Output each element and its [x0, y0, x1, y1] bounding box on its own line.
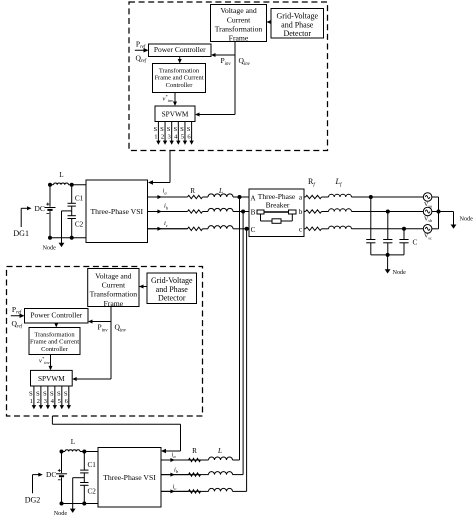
svg-text:DC: DC	[35, 204, 45, 213]
svg-text:Voltage and: Voltage and	[95, 271, 132, 280]
svg-text:S: S	[167, 126, 171, 133]
svg-text:DG1: DG1	[13, 229, 29, 238]
svg-text:S: S	[173, 126, 177, 133]
svg-text:Transformation: Transformation	[215, 25, 263, 34]
svg-text:and Phase: and Phase	[281, 20, 314, 29]
svg-text:Node: Node	[43, 244, 57, 251]
svg-text:Power Controller: Power Controller	[154, 45, 206, 54]
svg-text:S: S	[50, 390, 54, 397]
svg-text:Transformation: Transformation	[159, 67, 200, 74]
svg-text:DG2: DG2	[25, 495, 41, 504]
svg-text:S: S	[180, 126, 184, 133]
svg-text:A: A	[250, 194, 256, 202]
svg-text:SPVWM: SPVWM	[38, 374, 65, 383]
svg-text:and Phase: and Phase	[156, 285, 189, 294]
svg-text:Controller: Controller	[41, 346, 69, 353]
svg-text:L: L	[217, 447, 222, 455]
svg-text:Transformation: Transformation	[90, 290, 138, 299]
svg-text:Frame: Frame	[229, 34, 249, 43]
svg-text:L: L	[59, 171, 63, 179]
svg-text:Three-Phase VSI: Three-Phase VSI	[103, 473, 156, 482]
svg-text:Grid-Voltage: Grid-Voltage	[151, 276, 193, 285]
svg-text:C2: C2	[88, 487, 97, 495]
svg-text:Controller: Controller	[166, 82, 194, 89]
svg-text:Node: Node	[54, 510, 68, 517]
svg-text:Frame: Frame	[104, 299, 124, 308]
svg-text:Three-Phase VSI: Three-Phase VSI	[90, 207, 143, 216]
svg-text:Breaker: Breaker	[266, 201, 290, 210]
svg-text:Vsb: Vsb	[424, 216, 432, 223]
svg-text:R: R	[190, 187, 195, 195]
svg-text:SPVWM: SPVWM	[162, 109, 189, 118]
svg-text:Transformation: Transformation	[34, 331, 75, 338]
svg-text:S: S	[57, 390, 61, 397]
svg-text:Current: Current	[227, 15, 251, 24]
svg-text:C1: C1	[88, 461, 97, 469]
svg-text:C2: C2	[75, 221, 84, 229]
svg-text:S: S	[36, 390, 40, 397]
svg-text:L: L	[218, 187, 223, 195]
svg-text:Node: Node	[393, 269, 407, 276]
svg-text:S: S	[29, 390, 33, 397]
svg-text:Power Controller: Power Controller	[30, 311, 82, 320]
svg-text:C1: C1	[75, 194, 84, 202]
svg-text:b: b	[299, 208, 303, 216]
svg-text:B: B	[251, 209, 256, 217]
svg-text:L: L	[71, 438, 75, 446]
svg-text:1: 1	[30, 398, 33, 405]
svg-text:Grid-Voltage: Grid-Voltage	[276, 11, 318, 20]
svg-text:C: C	[251, 226, 256, 234]
svg-text:S: S	[187, 126, 191, 133]
svg-text:2: 2	[161, 134, 164, 141]
svg-text:S: S	[154, 126, 158, 133]
svg-text:DC: DC	[46, 470, 56, 479]
svg-text:Frame and Current: Frame and Current	[154, 75, 203, 82]
svg-text:S: S	[64, 390, 68, 397]
svg-text:Node: Node	[460, 216, 474, 223]
svg-text:S: S	[43, 390, 47, 397]
svg-text:C: C	[413, 238, 418, 246]
svg-text:Voltage and: Voltage and	[220, 6, 257, 15]
svg-text:Detector: Detector	[158, 294, 186, 303]
svg-text:2: 2	[37, 398, 40, 405]
svg-text:Detector: Detector	[283, 29, 311, 38]
svg-text:Frame and Current: Frame and Current	[30, 339, 79, 346]
svg-text:c: c	[299, 226, 302, 234]
svg-text:1: 1	[154, 134, 157, 141]
svg-text:Vsc: Vsc	[424, 234, 432, 241]
svg-text:S: S	[160, 126, 164, 133]
svg-text:Current: Current	[102, 280, 126, 289]
svg-text:R: R	[192, 447, 197, 455]
